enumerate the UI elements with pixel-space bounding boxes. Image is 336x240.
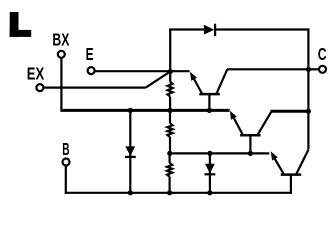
wire top (node A to diode D1) xyxy=(169,28,204,30)
wire BX vertical xyxy=(60,58,62,109)
wire EX diagonal to node A xyxy=(146,72,171,88)
terminal BX xyxy=(58,51,65,58)
svg-text:EX: EX xyxy=(27,64,45,84)
wire node A to top xyxy=(169,29,171,72)
transistor Q3 xyxy=(271,150,309,194)
junction D3 top xyxy=(207,151,212,156)
resistor R3 xyxy=(167,153,172,192)
svg-text:E: E xyxy=(86,44,94,64)
wire Q2 collector bus to C xyxy=(271,110,309,113)
diode D3 branch wire xyxy=(209,153,211,192)
junction Q1 base bus xyxy=(207,108,212,113)
junction D2 bus xyxy=(128,108,133,113)
terminal EX xyxy=(36,84,43,91)
diode D3 xyxy=(205,164,216,176)
wire mid line (Q3 emitter node) xyxy=(170,152,270,154)
junction R1 bus xyxy=(168,108,173,113)
svg-text:B: B xyxy=(62,139,69,159)
wire EX horizontal xyxy=(44,86,146,88)
wire top (D1 to C corner) xyxy=(216,28,310,30)
wire B vertical xyxy=(65,166,67,194)
transistor Q2 xyxy=(230,111,272,154)
wire Q1 collector to C bus xyxy=(227,68,308,70)
logo L xyxy=(10,12,32,37)
junction R2 R3 mid xyxy=(167,151,172,156)
wire bottom bus (B to Q3 base) xyxy=(65,192,292,194)
junction D2 bottom xyxy=(128,190,133,195)
wire C vertical xyxy=(307,29,309,150)
wire C stub to terminal xyxy=(308,68,318,70)
junction Q2 base mid xyxy=(248,151,253,156)
svg-text:C: C xyxy=(318,44,327,64)
wire bus BX (base bus) xyxy=(60,109,229,112)
terminal B xyxy=(63,159,70,166)
junction C node xyxy=(306,67,311,72)
transistor Q1 xyxy=(190,69,227,110)
junction R3 bottom xyxy=(167,190,172,195)
diode D2 xyxy=(125,146,136,158)
svg-text:BX: BX xyxy=(52,30,69,50)
node A junction xyxy=(168,69,173,74)
diode D1 xyxy=(204,24,216,36)
junction Q2 collector C xyxy=(306,109,311,114)
diode D2 branch wire xyxy=(129,110,131,192)
junction D3 bottom xyxy=(207,190,212,195)
wire E horizontal xyxy=(95,70,190,72)
resistor R1 xyxy=(168,72,173,111)
resistor R2 xyxy=(167,110,172,153)
terminal E xyxy=(88,67,95,74)
terminal C xyxy=(319,66,326,73)
